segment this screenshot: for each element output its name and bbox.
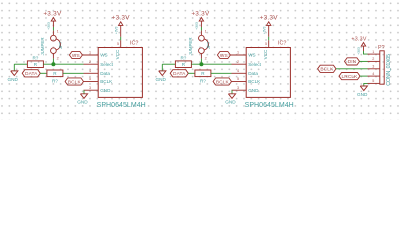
svg-text:2: 2 [205,57,207,61]
svg-text:2: 2 [237,60,239,64]
junction select 2 [199,62,203,66]
svg-text:+3V3: +3V3 [195,22,199,30]
svg-text:+3.3V: +3.3V [112,15,131,22]
resistor R1b (data series) [47,70,63,83]
svg-text:+3.3V: +3.3V [191,10,210,17]
svg-text:IC?: IC? [278,41,286,47]
svg-text:WS: WS [72,53,80,59]
wire LRCLK to pin 4 [360,75,368,77]
svg-text:+3.3V: +3.3V [351,36,366,42]
svg-text:Data: Data [248,71,258,76]
ground GND (connector) [357,86,368,97]
IC2 pin stubs [230,55,246,90]
ground GND1b [77,94,88,105]
svg-text:CONN_01X05: CONN_01X05 [386,54,392,86]
svg-text:DIN: DIN [348,59,357,65]
wire to ground 2a [161,64,163,71]
wire to ground 1a [13,64,15,71]
IC1 pin numbers [89,51,91,90]
IC2 pin numbers [237,51,239,90]
global label DIN [345,58,360,65]
svg-text:+3.3V: +3.3V [260,15,279,22]
wire jumper to select net 1 [52,59,54,65]
microphone IC2 SPH0645LM4H body [246,48,290,98]
svg-text:WS: WS [248,53,255,58]
svg-text:R?: R? [32,56,38,61]
power +3.3V (IC2 VCC) [260,15,279,37]
svg-text:WS: WS [100,53,107,58]
svg-text:Select: Select [248,62,261,67]
svg-text:VCC: VCC [115,49,120,59]
svg-text:5: 5 [265,42,267,46]
svg-text:4: 4 [89,69,91,73]
wire IC gnd to ground 2b [231,90,233,94]
svg-text:+3V3: +3V3 [47,22,51,30]
svg-text:P?: P? [378,45,385,51]
wire resistor to IC data pin 1 [63,72,84,74]
svg-text:GND: GND [77,100,88,105]
svg-text:JUMPER: JUMPER [188,37,193,55]
wire DIN to pin 2 [360,60,368,62]
svg-text:5: 5 [117,42,119,46]
wire pin 5 to ground [364,83,368,86]
svg-text:2: 2 [57,57,59,61]
microphone IC1 SPH0645LM4H body [98,48,142,98]
resistor R2a (select pulldown) [175,56,191,68]
global label BCLK (2) [213,78,231,85]
ground GND2a [155,71,166,82]
junction select 1 [51,62,55,66]
svg-text:BCLK: BCLK [100,79,113,84]
svg-text:JUMPER: JUMPER [40,37,45,55]
global label DATA (1) [22,70,40,77]
svg-text:3: 3 [372,65,374,69]
wire +3.3V to jumper JP2 [200,27,202,31]
svg-text:2: 2 [372,57,374,61]
wire +3.3V to IC1 VCC [120,37,122,41]
wire DATA label to resistor 1b [40,72,47,74]
svg-text:DATA: DATA [173,71,186,77]
svg-text:Data: Data [100,71,110,76]
wire select row 1 [14,63,27,65]
svg-text:GND: GND [357,92,368,97]
svg-text:SPH0645LM4H: SPH0645LM4H [97,102,146,109]
IC1 VCC pin stub [117,40,121,47]
svg-text:5: 5 [372,79,374,83]
global label WS (1) [69,51,82,58]
svg-text:GND: GND [7,77,18,82]
svg-text:JP?: JP? [58,41,63,49]
svg-text:GND: GND [248,88,259,93]
global label BCLK (1) [65,78,83,85]
svg-text:+3V3: +3V3 [262,26,266,34]
wire +3.3V to connector pin 1 [364,51,368,54]
svg-text:JP?: JP? [206,41,211,49]
svg-text:3: 3 [237,86,239,90]
connector P? pin stubs [368,54,380,83]
svg-text:1: 1 [205,30,207,34]
power +3.3V (IC1 VCC) [112,15,131,37]
svg-text:5: 5 [89,77,91,81]
wire +3.3V to jumper JP1 [52,27,54,31]
connector P? body [380,51,384,84]
svg-text:R?: R? [52,78,58,83]
svg-text:+3V3: +3V3 [114,26,118,34]
wire BCLK to pin 3 [336,68,368,70]
svg-text:Select: Select [100,62,113,67]
svg-text:GND: GND [225,100,236,105]
svg-text:+3V3: +3V3 [357,47,361,55]
svg-text:R?: R? [180,56,186,61]
wire resistor to IC data pin 2 [211,72,232,74]
svg-text:SPH0645LM4H: SPH0645LM4H [245,102,294,109]
svg-text:BCLK: BCLK [320,67,334,73]
svg-text:VCC: VCC [263,49,268,59]
svg-text:4: 4 [372,72,374,76]
wire jumper to select net 2 [200,59,202,65]
svg-text:LRCLK: LRCLK [342,74,359,80]
global label BCLK (connector) [318,65,336,72]
resistor R2b (data series) [195,70,211,83]
power +3.3V (connector) [351,36,366,54]
svg-text:IC?: IC? [130,41,138,47]
svg-text:R?: R? [200,78,206,83]
svg-text:1: 1 [57,30,59,34]
svg-text:BCLK: BCLK [216,79,230,85]
global label LRCLK [339,73,360,80]
jumper JP1 [40,30,63,61]
ground GND2b [225,94,236,105]
wire DATA label to resistor 2b [188,72,195,74]
svg-text:WS: WS [220,53,228,59]
svg-text:1: 1 [237,51,239,55]
svg-text:+3.3V: +3.3V [43,10,62,17]
svg-text:BCLK: BCLK [68,79,82,85]
svg-text:1: 1 [372,50,374,54]
power +3.3V (jumper 1) [43,10,62,29]
jumper JP2 [188,30,211,61]
global label WS (2) [217,51,230,58]
wire resistor to IC select pin 2 [191,63,231,65]
svg-text:1: 1 [89,51,91,55]
IC1 pin stubs [82,55,98,90]
svg-text:4: 4 [237,69,239,73]
wire IC gnd to ground 1b [83,90,85,94]
wire +3.3V to IC2 VCC [268,37,270,41]
power +3.3V (jumper 2) [191,10,210,29]
svg-text:2: 2 [89,60,91,64]
IC2 VCC pin stub [265,40,269,47]
svg-text:3: 3 [89,86,91,90]
wire resistor to IC select pin 1 [43,63,83,65]
svg-text:BCLK: BCLK [248,79,261,84]
svg-text:DATA: DATA [25,71,38,77]
ground GND1a [7,71,18,82]
resistor R1a (select pulldown) [27,56,43,68]
svg-text:5: 5 [237,77,239,81]
connector pin numbers [372,50,374,83]
global label DATA (2) [170,70,188,77]
svg-text:GND: GND [155,77,166,82]
svg-text:GND: GND [100,88,111,93]
wire select row 2 [162,63,175,65]
